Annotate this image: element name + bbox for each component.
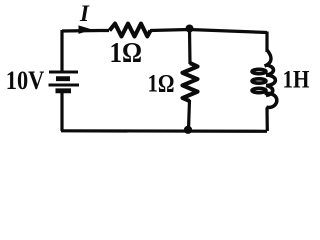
- wire right bottom: [265, 108, 268, 132]
- svg-text:1Ω: 1Ω: [110, 38, 143, 69]
- wire top: [62, 30, 267, 33]
- svg-text:10V: 10V: [6, 66, 45, 95]
- svg-text:1Ω: 1Ω: [148, 71, 175, 98]
- inductor L 1H: [252, 50, 277, 108]
- battery short plate 1: [56, 76, 70, 81]
- svg-text:1H: 1H: [283, 67, 310, 94]
- junction node bottom: [184, 126, 192, 134]
- svg-text:I: I: [79, 1, 90, 26]
- wire left lower: [60, 91, 63, 132]
- resistor R top 1ohm: [110, 24, 151, 37]
- wire left: [60, 30, 63, 72]
- battery long plate 2: [49, 83, 80, 86]
- junction node top: [186, 25, 194, 33]
- wire bottom: [61, 129, 267, 133]
- current arrow: [79, 25, 93, 34]
- wire middle branch top: [188, 30, 192, 65]
- wire middle branch bottom: [189, 100, 190, 130]
- wire right top: [265, 32, 268, 53]
- battery short plate 2: [56, 88, 72, 93]
- battery 10V: [49, 72, 80, 91]
- battery long plate 1: [49, 70, 78, 73]
- resistor R middle vertical 1ohm: [183, 63, 198, 101]
